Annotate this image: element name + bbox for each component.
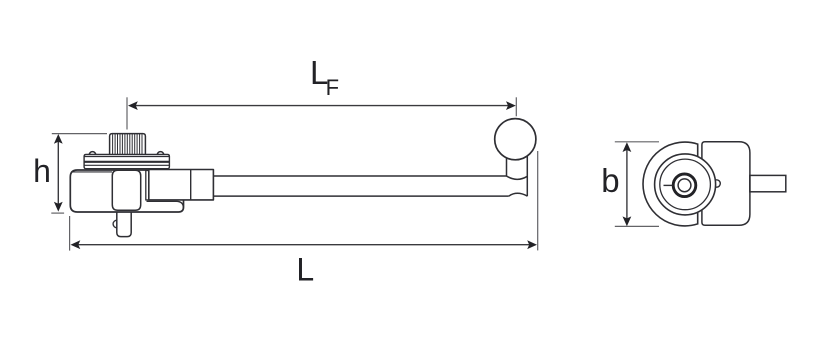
svg-text:h: h xyxy=(33,153,51,189)
svg-text:L: L xyxy=(296,252,314,288)
svg-text:b: b xyxy=(601,162,619,199)
svg-text:F: F xyxy=(326,75,339,100)
